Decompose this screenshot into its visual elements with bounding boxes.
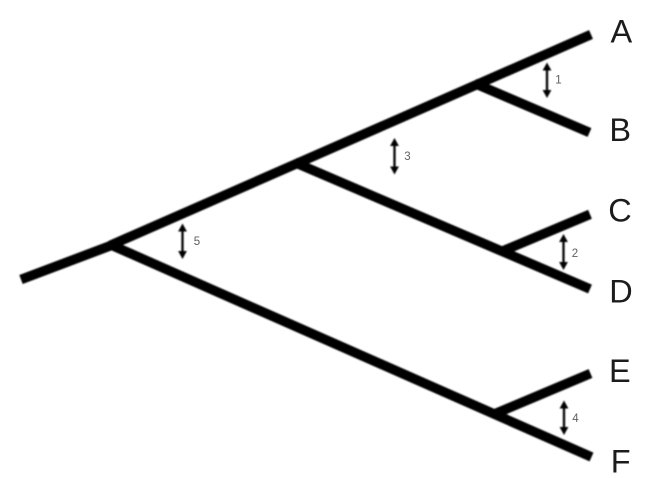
svg-text:4: 4 — [572, 413, 579, 425]
branch to tip D — [295, 162, 591, 289]
root branch — [21, 244, 115, 280]
svg-text:A: A — [611, 14, 633, 50]
svg-text:B: B — [609, 112, 631, 148]
arrow 4 (node E/F) — [560, 401, 569, 436]
svg-text:D: D — [609, 274, 632, 310]
svg-text:1: 1 — [555, 75, 561, 87]
svg-text:2: 2 — [572, 248, 578, 260]
branch to tip E — [494, 374, 591, 415]
arrow 2 (node C/D) — [559, 234, 568, 270]
svg-text:C: C — [608, 192, 631, 228]
arrow 5 (root node) — [178, 224, 187, 260]
arrow 3 (node ABCD) — [390, 138, 399, 175]
svg-text:5: 5 — [194, 236, 200, 248]
backbone branch to tip A — [110, 35, 591, 246]
branch to tip F (lower main) — [110, 245, 592, 458]
svg-text:3: 3 — [404, 151, 410, 163]
branch to tip B — [475, 83, 590, 132]
svg-text:E: E — [609, 353, 631, 389]
branch to tip C — [502, 214, 590, 251]
svg-text:F: F — [611, 444, 631, 478]
arrow 1 (node A/B) — [543, 63, 552, 99]
